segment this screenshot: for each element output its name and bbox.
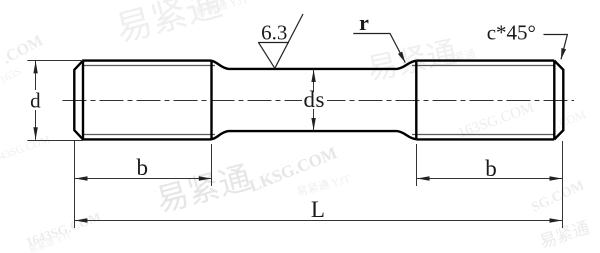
svg-text:b: b <box>136 155 148 180</box>
svg-text:ds: ds <box>303 87 324 112</box>
svg-text:r: r <box>359 10 369 35</box>
svg-text:d: d <box>30 89 41 113</box>
svg-text:b: b <box>485 156 497 181</box>
svg-text:c*45°: c*45° <box>487 21 536 45</box>
svg-text:L: L <box>311 197 325 222</box>
svg-text:6.3: 6.3 <box>261 21 287 45</box>
